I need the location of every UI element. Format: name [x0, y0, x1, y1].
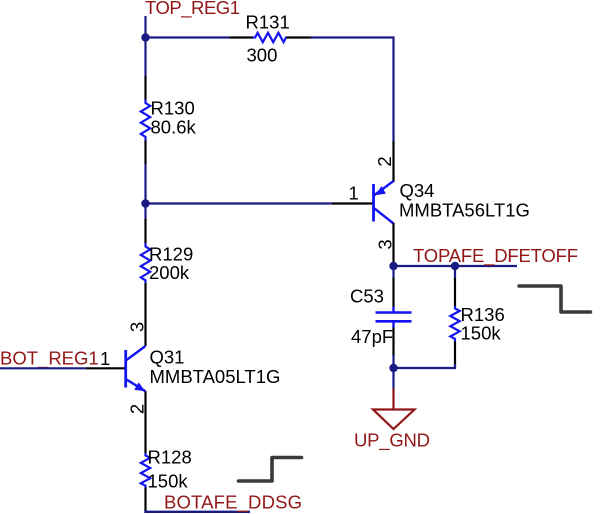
svg-text:200k: 200k [149, 262, 190, 283]
resistor R130 [141, 76, 197, 164]
junction at top of left rail [141, 33, 149, 41]
resistor R129 [141, 219, 193, 307]
svg-text:80.6k: 80.6k [151, 117, 197, 138]
svg-text:1: 1 [100, 348, 110, 369]
resistor R136 [450, 266, 504, 366]
svg-text:150k: 150k [148, 471, 189, 492]
wire junction down to C53 [392, 266, 394, 279]
ground UP_GND [354, 389, 430, 452]
transistor Q31 [86, 320, 280, 415]
svg-text:1: 1 [349, 183, 359, 204]
svg-text:R128: R128 [148, 447, 192, 468]
pin 2 label of Q34 [374, 156, 395, 166]
wire TOPAFE_DFETOFF net horizontal [394, 265, 518, 267]
wire junction down toward ground [392, 368, 394, 389]
wire R130 bottom to middle junction [144, 164, 146, 204]
transistor Q34 [332, 141, 530, 266]
wire top vertical stub from TOP_REG1 label to junction [144, 16, 146, 38]
junction at C53 bottom / ground [389, 364, 397, 372]
capacitor C53 [350, 278, 412, 356]
wire left rail junction to R130 [144, 38, 146, 77]
svg-text:Q31: Q31 [150, 347, 185, 368]
svg-text:BOT_REG1: BOT_REG1 [0, 348, 99, 370]
pin 2 label of Q31 [126, 404, 147, 414]
node TOP_REG1 [145, 0, 240, 19]
svg-text:3: 3 [374, 239, 395, 249]
waveform annotation falling step near TOPAFE_DFETOFF [519, 286, 591, 312]
svg-text:BOTAFE_DDSG: BOTAFE_DDSG [164, 492, 302, 514]
wire middle junction down to R129 [144, 204, 146, 220]
svg-text:3: 3 [126, 322, 147, 332]
wire from R131 right to corner and down to Q34 [311, 38, 394, 142]
svg-text:47pF: 47pF [351, 326, 393, 347]
svg-text:R130: R130 [151, 98, 195, 119]
svg-text:2: 2 [126, 404, 147, 414]
pin 1 label of Q31 [100, 348, 110, 369]
pin 3 label of Q34 [374, 239, 395, 249]
svg-text:MMBTA56LT1G: MMBTA56LT1G [399, 200, 530, 221]
wire middle junction to Q34 base [146, 202, 333, 204]
svg-text:150k: 150k [461, 323, 502, 344]
svg-text:R131: R131 [246, 12, 290, 33]
svg-text:TOP_REG1: TOP_REG1 [145, 0, 240, 19]
pin 1 label of Q34 [349, 183, 359, 204]
svg-text:UP_GND: UP_GND [354, 430, 430, 452]
svg-text:300: 300 [247, 45, 278, 66]
junction middle of left rail [141, 199, 149, 207]
junction at Q34 emitter / C53 top [389, 262, 397, 270]
pin 3 label of Q31 [126, 322, 147, 332]
svg-text:TOPAFE_DFETOFF: TOPAFE_DFETOFF [413, 245, 578, 267]
node TOPAFE_DFETOFF [413, 245, 578, 267]
node BOTAFE_DDSG [164, 492, 302, 514]
resistor R131 [230, 12, 312, 66]
junction at R136 top [451, 262, 459, 270]
wire top horizontal from junction to R131 [146, 36, 230, 38]
svg-text:2: 2 [374, 156, 395, 166]
svg-text:MMBTA05LT1G: MMBTA05LT1G [150, 366, 281, 387]
node BOT_REG1 [0, 348, 99, 370]
wire C53 bottom to junction [392, 355, 394, 368]
wire bottom horizontal BOTAFE_DDSG net [146, 510, 251, 512]
svg-text:Q34: Q34 [400, 180, 435, 201]
wire R129 bottom to Q31 collector [144, 307, 146, 321]
waveform annotation rising step near R128 [239, 458, 302, 482]
wire Q31 emitter to R128 [144, 415, 146, 430]
wire bottom junction to R136 bottom [394, 364, 456, 368]
svg-text:C53: C53 [350, 286, 384, 307]
wire BOT_REG1 to Q31 base [0, 367, 87, 369]
resistor R128 [141, 429, 192, 512]
